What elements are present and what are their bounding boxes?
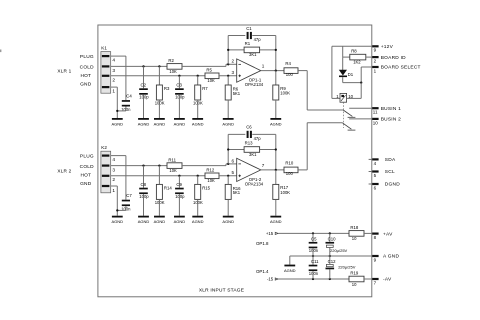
resistor R4 100 series output: [284, 68, 298, 74]
svg-text:HOT: HOT: [80, 73, 91, 79]
svg-text:5K1: 5K1: [233, 91, 241, 96]
junction: [275, 49, 277, 51]
svg-text:SCL: SCL: [385, 169, 395, 175]
svg-text:1: 1: [112, 188, 115, 194]
svg-text:+AV: +AV: [383, 231, 393, 237]
svg-text:K1: K1: [101, 46, 107, 51]
wire +12V rail: [332, 45, 372, 47]
capacitor C2 100p: [143, 66, 145, 88]
capacitor C4 100n: [122, 100, 130, 102]
wire to op-amp non-inverting input: [219, 175, 237, 177]
junction: [158, 164, 160, 166]
board pin SCL: [369, 171, 372, 173]
svg-text:2: 2: [112, 177, 115, 183]
svg-text:R7: R7: [202, 86, 208, 91]
svg-text:10: 10: [373, 120, 379, 125]
connector K2 pin bar row 1: [102, 185, 110, 187]
wire to op-amp non-inverting input: [219, 75, 237, 77]
svg-text:-15: -15: [267, 277, 274, 282]
svg-text:100K: 100K: [280, 90, 290, 95]
svg-text:R15: R15: [202, 186, 210, 191]
junction: [197, 175, 199, 177]
ground AGND (C3): [174, 118, 185, 120]
wire BOARD SELECT net: [361, 66, 372, 68]
wire feedback right vertical: [275, 134, 277, 170]
svg-text:C9: C9: [176, 182, 182, 187]
svg-text:D1: D1: [348, 72, 354, 77]
wire feedback left vertical: [227, 134, 229, 164]
op-amp OP1-1 OPA2134: [237, 59, 261, 82]
ground AGND (power): [284, 265, 295, 267]
svg-text:XLR 2: XLR 2: [57, 169, 71, 174]
svg-text:10: 10: [352, 236, 357, 241]
svg-text:1: 1: [262, 64, 265, 69]
svg-text:47p: 47p: [254, 37, 262, 42]
resistor R12 10K series: [205, 173, 219, 179]
wire COLD net K1: [111, 65, 167, 67]
capacitor C10 220u/25V polarized: [329, 233, 331, 242]
junction: [197, 75, 199, 77]
svg-text:R19: R19: [350, 271, 358, 276]
junction: [275, 148, 277, 150]
junction: [178, 175, 180, 177]
svg-text:BOARD ID: BOARD ID: [381, 55, 406, 61]
board pin BOARD ID: [372, 56, 378, 58]
relay actuation dashed link: [342, 102, 344, 128]
svg-text:C2: C2: [141, 83, 147, 88]
svg-text:47p: 47p: [254, 136, 262, 141]
svg-text:AGND: AGND: [270, 121, 282, 126]
ground AGND (R6): [223, 118, 234, 120]
wire to op-amp inverting input: [182, 165, 226, 167]
op-amp plus sign: [238, 175, 241, 177]
junction: [275, 69, 277, 71]
svg-text:AGND: AGND: [154, 121, 166, 126]
resistor R14 100K: [158, 166, 160, 185]
connector K2 pin bar row 2: [102, 175, 110, 177]
ground AGND (R14): [154, 216, 165, 218]
svg-text:C10: C10: [328, 236, 336, 241]
resistor R11 10K series: [167, 163, 182, 169]
wire R8 to BOARD ID pin: [366, 56, 372, 58]
junction: [360, 81, 362, 83]
svg-text:A GND: A GND: [383, 254, 399, 260]
connector K2 pin bar row 4: [102, 155, 110, 157]
capacitor C3 100p: [178, 76, 180, 89]
junction: [227, 175, 229, 177]
relay coil G1: [340, 93, 347, 102]
wire C7 to ground junction: [125, 206, 127, 210]
scan edge mark: [0, 50, 1, 53]
junction: [312, 255, 314, 257]
capacitor C5 100n: [312, 233, 314, 242]
resistor R18 10: [349, 231, 364, 237]
svg-text:K2: K2: [101, 145, 107, 150]
svg-text:C3: C3: [176, 83, 182, 88]
svg-text:BUSIN 2: BUSIN 2: [381, 117, 401, 123]
junction: [227, 163, 229, 165]
svg-text:PLUG: PLUG: [80, 154, 94, 160]
resistor R2 10K series: [167, 64, 182, 70]
svg-text:10K: 10K: [169, 69, 177, 74]
svg-text:C4: C4: [126, 94, 132, 99]
resistor R8 1K2: [350, 54, 366, 60]
wire output to relay switch 2: [298, 169, 307, 171]
svg-text:COLD: COLD: [80, 164, 94, 170]
svg-text:C12: C12: [328, 259, 336, 264]
svg-text:R10: R10: [285, 160, 293, 165]
op-amp minus sign: [238, 63, 241, 65]
junction: [275, 169, 277, 171]
resistor R19 10: [349, 276, 364, 282]
wire COLD net K2: [111, 165, 167, 167]
wire switch 2 to BUSIN 2 pin: [349, 118, 372, 120]
sheet frame border: [98, 25, 372, 297]
ground AGND (K2): [112, 216, 123, 218]
wire GND pin of K2 to AGND: [111, 185, 118, 187]
wire +12V branch to R8 and D1: [342, 46, 344, 57]
board pin +12V: [372, 45, 378, 47]
board pin SDA: [369, 158, 372, 160]
connector K1 pin bar row 2: [102, 75, 110, 77]
svg-text:+15: +15: [266, 231, 274, 236]
svg-text:HOT: HOT: [80, 172, 91, 178]
svg-text:R13: R13: [245, 140, 253, 145]
svg-text:C1: C1: [246, 26, 252, 31]
svg-text:AGND: AGND: [192, 219, 204, 224]
svg-text:R18: R18: [350, 225, 358, 230]
svg-text:R12: R12: [206, 168, 214, 173]
resistor R9 100K to ground: [275, 71, 277, 85]
resistor R13 3K1 feedback: [228, 149, 244, 151]
junction: [329, 278, 331, 280]
svg-text:+12V: +12V: [381, 44, 394, 50]
wire PLUG net K1: [111, 55, 126, 57]
svg-text:XLR 1: XLR 1: [57, 69, 71, 74]
wire junction to relay coil pin 10: [360, 83, 362, 99]
svg-text:10K: 10K: [207, 78, 215, 83]
svg-text:AGND: AGND: [112, 121, 124, 126]
junction: [116, 110, 118, 112]
svg-text:5K1: 5K1: [233, 190, 241, 195]
svg-text:AGND: AGND: [270, 219, 282, 224]
resistor R16 5K1: [227, 176, 229, 185]
wire R18 to +AV pin: [364, 232, 372, 234]
wire HOT net K1: [111, 75, 205, 77]
wire switch 1 to BUSIN 1 pin: [349, 107, 372, 109]
wire op-amp output: [261, 70, 284, 72]
svg-text:BOARD SELECT: BOARD SELECT: [381, 65, 421, 71]
svg-text:C6: C6: [246, 125, 252, 130]
board pin DGND: [369, 183, 372, 185]
svg-text:100n: 100n: [309, 248, 319, 253]
svg-text:1K2: 1K2: [353, 60, 361, 65]
svg-text:AGND: AGND: [192, 121, 204, 126]
ground AGND (C8): [138, 216, 149, 218]
junction: [329, 255, 331, 257]
ground AGND (K1): [112, 118, 123, 120]
resistor R6 5K1: [227, 76, 229, 85]
connector K1 pin bar row 3: [102, 65, 110, 67]
relay switch contact 2 throw tick: [348, 129, 356, 131]
svg-text:100: 100: [286, 72, 294, 77]
wire +supply rail: [278, 232, 349, 234]
svg-text:220µ/25V: 220µ/25V: [338, 265, 356, 270]
svg-text:11: 11: [373, 110, 378, 115]
junction: [142, 164, 144, 166]
junction: [178, 75, 180, 77]
capacitor C11 100n: [312, 256, 314, 265]
junction: [329, 232, 331, 234]
svg-text:COLD: COLD: [80, 64, 94, 70]
op-amp minus sign: [238, 163, 241, 165]
svg-text:AGND: AGND: [174, 219, 186, 224]
svg-text:C11: C11: [311, 259, 319, 264]
svg-text:10K: 10K: [207, 178, 215, 183]
svg-text:AGND: AGND: [222, 121, 234, 126]
ground AGND (C9): [174, 216, 185, 218]
resistor R15 100K: [197, 176, 199, 185]
op-amp plus sign: [238, 75, 241, 77]
junction: [227, 148, 229, 150]
svg-text:R5: R5: [206, 68, 212, 73]
svg-text:R1: R1: [245, 41, 251, 46]
board pin A GND: [372, 255, 378, 257]
ground AGND (R3): [154, 118, 165, 120]
capacitor C9 100p: [178, 176, 180, 188]
connector K1 pin bar row 4: [102, 55, 110, 57]
svg-text:AGND: AGND: [138, 121, 150, 126]
connector K1 pin bar row 1: [102, 86, 110, 88]
wire -supply rail: [278, 278, 349, 280]
svg-text:AGND: AGND: [284, 268, 296, 273]
wire op-amp output: [261, 169, 284, 171]
svg-text:AGND: AGND: [138, 219, 150, 224]
svg-text:OPA2134: OPA2134: [245, 181, 264, 186]
svg-text:PLUG: PLUG: [80, 54, 94, 60]
ground AGND (R16): [223, 216, 234, 218]
capacitor C12 220u/25V polarized: [329, 256, 331, 264]
svg-text:4: 4: [112, 157, 115, 163]
relay switch contact 1 blade: [343, 110, 352, 116]
svg-text:2: 2: [231, 59, 234, 64]
wire HOT net K2: [111, 175, 205, 177]
ground AGND (R7): [192, 118, 203, 120]
svg-text:R3: R3: [164, 86, 170, 91]
ground AGND (C2): [138, 118, 149, 120]
wire output to relay switch 1: [298, 70, 307, 72]
ground AGND (R9): [270, 118, 281, 120]
board pin BUSIN 1: [372, 107, 378, 109]
junction: [142, 65, 144, 67]
svg-text:AGND: AGND: [154, 219, 166, 224]
svg-text:3: 3: [112, 168, 115, 174]
svg-text:XLR INPUT STAGE: XLR INPUT STAGE: [199, 287, 244, 293]
board pin BUSIN 2: [372, 118, 378, 120]
svg-text:AGND: AGND: [222, 219, 234, 224]
junction: [116, 209, 118, 211]
svg-text:5: 5: [231, 170, 234, 175]
svg-text:C7: C7: [126, 193, 132, 198]
svg-text:SDA: SDA: [385, 157, 396, 163]
svg-text:100p: 100p: [175, 95, 185, 100]
wire R19 to -AV pin: [364, 278, 372, 280]
resistor R5 10K series: [205, 73, 219, 79]
resistor R3 100K: [158, 66, 160, 85]
svg-text:3K1: 3K1: [249, 52, 257, 57]
relay switch contact 2 blade: [342, 123, 351, 130]
svg-text:GND: GND: [80, 181, 92, 187]
resistor R1 3K1 feedback: [228, 49, 244, 51]
svg-text:R2: R2: [168, 58, 174, 63]
wire D1 cathode to board select junction: [342, 77, 344, 83]
junction: [227, 75, 229, 77]
capacitor C8 100p: [143, 166, 145, 188]
connector K1 body: [101, 52, 111, 94]
svg-text:OP1.8: OP1.8: [256, 241, 269, 246]
svg-text:220µ/25V: 220µ/25V: [330, 248, 348, 253]
svg-text:R8: R8: [351, 48, 357, 53]
junction: [312, 278, 314, 280]
resistor R17 100K to ground: [275, 170, 277, 185]
svg-text:C8: C8: [141, 182, 147, 187]
svg-text:GND: GND: [80, 82, 92, 88]
svg-text:10K: 10K: [169, 168, 177, 173]
diode D1: [342, 57, 344, 70]
svg-text:R4: R4: [285, 61, 291, 66]
svg-text:DGND: DGND: [385, 182, 400, 188]
wire to op-amp inverting input: [182, 65, 226, 67]
wire analog ground rail: [290, 255, 372, 257]
wire to AGND symbol: [289, 256, 291, 265]
board pin -AV: [372, 278, 378, 280]
junction: [312, 232, 314, 234]
resistor R10 100 series output: [284, 167, 298, 173]
connector K2 pin bar row 3: [102, 165, 110, 167]
svg-text:3: 3: [112, 68, 115, 74]
svg-text:-AV: -AV: [383, 277, 392, 283]
resistor R7 100K: [197, 76, 199, 85]
junction: [158, 65, 160, 67]
ground AGND (R15): [192, 216, 203, 218]
op-amp OP1-2 OPA2134: [237, 158, 261, 181]
svg-text:100p: 100p: [139, 194, 149, 199]
board pin BOARD SELECT: [372, 66, 378, 68]
svg-text:2: 2: [112, 78, 115, 84]
svg-text:4: 4: [112, 58, 115, 64]
svg-text:3: 3: [231, 70, 234, 75]
wire feedback left vertical: [227, 36, 229, 65]
wire PLUG net K2: [111, 155, 126, 157]
wire feedback right vertical: [275, 36, 277, 71]
svg-text:AGND: AGND: [174, 121, 186, 126]
capacitor C1 47p feedback: [228, 35, 245, 37]
svg-text:1: 1: [112, 89, 115, 95]
svg-text:R11: R11: [168, 157, 176, 162]
svg-text:OPA2134: OPA2134: [245, 82, 264, 87]
connector K2 body: [101, 151, 111, 193]
relay switch contact 1 throw tick: [348, 116, 356, 118]
svg-text:10: 10: [352, 282, 357, 287]
svg-text:10: 10: [348, 94, 353, 99]
svg-text:100p: 100p: [175, 194, 185, 199]
svg-text:100n: 100n: [309, 271, 319, 276]
svg-text:R14: R14: [164, 186, 172, 191]
svg-text:6: 6: [231, 158, 234, 163]
wire C4 to ground junction: [125, 107, 127, 111]
svg-text:100p: 100p: [139, 95, 149, 100]
junction: [227, 49, 229, 51]
svg-text:C5: C5: [311, 236, 317, 241]
svg-text:100K: 100K: [280, 190, 290, 195]
junction: [227, 63, 229, 65]
board pin +AV: [372, 233, 378, 235]
wire GND pin of K1 to AGND: [111, 86, 118, 88]
svg-text:AGND: AGND: [112, 219, 124, 224]
svg-text:100: 100: [286, 171, 294, 176]
svg-text:BUSIN 1: BUSIN 1: [381, 106, 401, 112]
svg-text:7: 7: [262, 163, 265, 168]
capacitor C7 100n: [122, 200, 130, 202]
svg-text:OP1.4: OP1.4: [256, 269, 269, 274]
svg-text:3K1: 3K1: [249, 152, 257, 157]
capacitor C6 47p feedback: [228, 133, 245, 135]
ground AGND (R17): [270, 216, 281, 218]
